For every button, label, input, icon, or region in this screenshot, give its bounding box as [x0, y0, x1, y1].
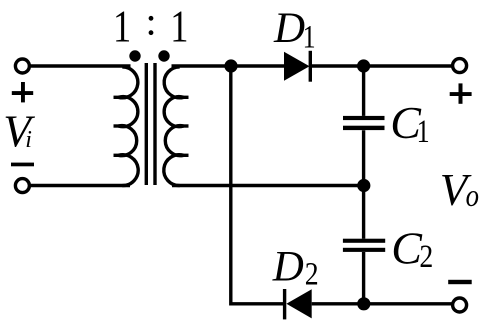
svg-text:1: 1 [113, 2, 131, 52]
terminal input bottom-left [15, 179, 29, 193]
svg-text:2: 2 [419, 239, 433, 275]
wire C1 to middle node to C2 [362, 130, 365, 239]
wire secondary top to node A and D1 anode [172, 64, 285, 67]
diode D2 triangle [286, 289, 311, 318]
transformer T1 core [145, 63, 148, 185]
svg-text:D: D [272, 244, 304, 291]
svg-text:2: 2 [305, 257, 319, 293]
wire D1 cathode to node B and output [312, 64, 453, 67]
minus sign input [11, 163, 34, 167]
terminal output bottom-right [453, 298, 467, 312]
svg-text:1: 1 [303, 20, 316, 56]
wire node A down to D2 rail [231, 66, 283, 304]
wire bottom rail D2 cathode to output [312, 302, 453, 305]
capacitor C2 bottom plate [343, 248, 385, 252]
capacitor C1 bottom plate [343, 126, 385, 130]
minus sign output [448, 280, 472, 284]
capacitor C1 top plate [343, 116, 385, 120]
wire secondary bottom to middle node [172, 184, 364, 187]
terminal output top-right [453, 59, 467, 73]
svg-text:D: D [273, 5, 305, 52]
svg-text:o: o [466, 177, 479, 213]
wire bottom-left rail [31, 184, 130, 187]
svg-text:1: 1 [417, 114, 430, 150]
transformer polarity dot secondary [158, 50, 169, 61]
diode D1 triangle [284, 52, 310, 81]
node A junction dot [224, 59, 237, 72]
plus sign input [12, 91, 33, 95]
terminal input top-left [15, 59, 29, 73]
diode D2 cathode bar [283, 289, 286, 319]
middle node junction dot [357, 179, 370, 192]
transformer polarity dot primary [129, 50, 140, 61]
node B junction dot [357, 59, 370, 72]
wire top-left rail [31, 64, 131, 67]
diode D1 cathode bar [309, 51, 312, 82]
svg-text:i: i [25, 127, 32, 153]
transformer T1 secondary winding [164, 67, 183, 98]
wire node B down to C1 [362, 66, 365, 116]
capacitor C2 top plate [343, 239, 385, 243]
wire C2 to bottom node [362, 252, 365, 304]
transformer T1 primary winding [119, 67, 138, 98]
svg-text:1: 1 [170, 2, 188, 52]
svg-text:C: C [391, 223, 423, 274]
plus sign output [450, 92, 472, 96]
bottom node junction dot [357, 297, 370, 310]
